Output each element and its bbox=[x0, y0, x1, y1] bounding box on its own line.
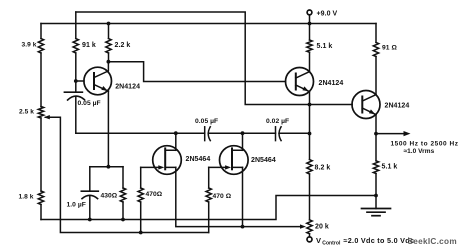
wire Q1 base bbox=[76, 80, 84, 82]
wire 430 top lead bbox=[122, 167, 124, 188]
resistor 91k bbox=[73, 39, 78, 54]
wire 470a bottom lead bbox=[140, 202, 142, 233]
svg-text:91 k: 91 k bbox=[82, 42, 96, 49]
wire 5.1k bottom top lead bbox=[375, 134, 377, 161]
wire 2.5k to 1.8k bbox=[40, 118, 42, 191]
junction 470a bottom bbox=[139, 231, 143, 235]
svg-text:1.0 µF: 1.0 µF bbox=[67, 202, 86, 209]
transistor Q3 2N4124 bbox=[352, 91, 380, 119]
arrowhead 20k wiper bbox=[300, 224, 306, 228]
label Q3 2N4124 bbox=[385, 103, 410, 110]
terminal Vcontrol bbox=[307, 237, 312, 242]
capacitor 1.0uF bbox=[81, 191, 98, 198]
wire JFET2 drain bbox=[242, 133, 244, 150]
wire feedback rail (91k top to Q3 base line) bbox=[76, 12, 352, 105]
label 0.05 uF series bbox=[195, 118, 218, 125]
svg-text:470 Ω: 470 Ω bbox=[213, 193, 232, 200]
svg-text:0.05 µF: 0.05 µF bbox=[78, 100, 101, 107]
resistor 1.8k bbox=[38, 191, 43, 204]
wire C1 top lead bbox=[75, 81, 77, 92]
resistor 430 bbox=[120, 188, 125, 202]
wire JFET2 source bbox=[242, 167, 244, 226]
label Q1 2N4124 bbox=[115, 84, 140, 91]
resistor 470a bbox=[138, 188, 143, 202]
label Q5 2N5464 bbox=[251, 157, 276, 164]
label +9.0 V bbox=[317, 11, 338, 18]
junction JFET2 source on wiper line bbox=[241, 225, 245, 229]
label 5.1 k top bbox=[317, 43, 333, 50]
resistor 8.2k bbox=[307, 160, 312, 175]
capacitor C1 0.05uF bbox=[64, 92, 84, 100]
svg-text:SeekIC.com: SeekIC.com bbox=[408, 237, 457, 246]
label 20 k bbox=[315, 224, 329, 231]
junction ground node bbox=[374, 194, 378, 198]
resistor 91ohm bbox=[373, 42, 378, 56]
svg-text:1.8 k: 1.8 k bbox=[19, 194, 34, 201]
wire 2.2k top lead bbox=[108, 24, 110, 39]
wire emitter node horizontal bbox=[90, 166, 123, 168]
label 3.9 k bbox=[22, 42, 37, 49]
label 2.5 k bbox=[19, 109, 34, 116]
label output level bbox=[404, 148, 435, 155]
svg-text:3.9 k: 3.9 k bbox=[22, 42, 37, 49]
svg-text:0.02 µF: 0.02 µF bbox=[266, 118, 289, 125]
wire ground lead bbox=[375, 196, 377, 209]
label output freq bbox=[391, 140, 459, 147]
wire Q1 collector to Q2 base bbox=[108, 62, 285, 82]
label 1.0 uF bbox=[67, 202, 86, 209]
svg-text:V: V bbox=[316, 236, 321, 245]
wire +9V supply rail bbox=[41, 23, 376, 25]
wire 91k to Q1 base node bbox=[75, 53, 77, 81]
svg-text:470Ω: 470Ω bbox=[146, 191, 163, 198]
wire output bbox=[376, 133, 405, 135]
wire 3.9k to 2.5k bbox=[40, 53, 42, 107]
resistor 3.9k bbox=[38, 39, 43, 54]
JFET Q4 2N5464 bbox=[153, 146, 182, 175]
wire JFET1 gate bbox=[141, 166, 161, 168]
junction Q1 collector node bbox=[107, 60, 111, 64]
wire 470a top lead bbox=[140, 167, 142, 188]
wire Q2 collector bbox=[309, 52, 311, 71]
arrowhead 2.5k wiper bbox=[44, 115, 50, 119]
wire 470b bottom lead bbox=[208, 202, 210, 233]
svg-text:Control: Control bbox=[322, 241, 341, 247]
label 470a ohm bbox=[146, 191, 163, 198]
wire Q3 emitter bbox=[375, 114, 377, 133]
label 2.2 k bbox=[115, 42, 131, 49]
label 5.1 k bottom bbox=[382, 164, 398, 171]
wire Q1 emitter bbox=[107, 91, 109, 167]
wire JFET2 gate bbox=[209, 166, 228, 168]
wire Q3 collector bbox=[375, 57, 377, 95]
wire 2.2k to Q1 collector bbox=[108, 53, 110, 62]
junction 2.2k top bbox=[107, 22, 111, 26]
wire 20k bottom lead bbox=[309, 234, 311, 237]
resistor 5.1k top bbox=[307, 40, 312, 52]
svg-text:430Ω: 430Ω bbox=[101, 193, 118, 200]
wire 430 bottom lead bbox=[122, 202, 124, 220]
wire common line1 to 5.1k bottom node bbox=[41, 196, 376, 220]
svg-text:2N5464: 2N5464 bbox=[251, 157, 276, 164]
svg-text:≈1.0 Vrms: ≈1.0 Vrms bbox=[404, 148, 435, 155]
wire 5.1k top lead bbox=[309, 24, 311, 41]
svg-text:1500 Hz to 2500 Hz: 1500 Hz to 2500 Hz bbox=[391, 140, 459, 147]
arrowhead JFET1 gate bbox=[158, 165, 164, 169]
potentiometer 20k bbox=[307, 220, 312, 234]
capacitor 0.02uF series bbox=[276, 127, 282, 141]
wire 2.5k wiper arm bbox=[46, 117, 209, 232]
label 470b ohm bbox=[213, 193, 232, 200]
junction JFET1 drain bbox=[174, 131, 178, 135]
wire 8.2k top lead bbox=[309, 134, 311, 160]
capacitor 0.05uF series bbox=[205, 127, 211, 141]
label Q4 2N5464 bbox=[186, 156, 211, 163]
label 1.8 k bbox=[19, 194, 34, 201]
svg-text:2N4124: 2N4124 bbox=[115, 84, 140, 91]
potentiometer 2.5k bbox=[38, 107, 43, 119]
wire JFET1 drain bbox=[175, 133, 177, 150]
label 0.05 uF C1 bbox=[78, 100, 101, 107]
svg-text:5.1 k: 5.1 k bbox=[317, 43, 333, 50]
wire 1.0uF bottom lead bbox=[89, 196, 91, 219]
wire 470b top lead bbox=[208, 167, 210, 188]
resistor 470b bbox=[206, 188, 211, 202]
wire 5.1k bottom to node bbox=[375, 174, 377, 196]
wire JFET1 source to 20k wiper line bbox=[176, 167, 302, 226]
label 91 ohm bbox=[382, 45, 397, 52]
wire 91k top lead bbox=[75, 12, 77, 39]
svg-text:8.2 k: 8.2 k bbox=[315, 165, 331, 172]
wire phase-shift ladder bbox=[76, 132, 310, 134]
wire 1.0uF top lead bbox=[89, 167, 91, 192]
junction 1.0uF bottom bbox=[88, 218, 92, 222]
svg-text:2.2 k: 2.2 k bbox=[115, 42, 131, 49]
junction Q1 emitter node bbox=[107, 165, 111, 169]
transistor Q2 2N4124 bbox=[286, 68, 314, 96]
wire 3.9k top lead bbox=[40, 24, 42, 39]
svg-text:2N4124: 2N4124 bbox=[319, 80, 344, 87]
svg-text:≈2.0 Vdc to 5.0 Vdc: ≈2.0 Vdc to 5.0 Vdc bbox=[344, 236, 415, 245]
svg-text:2N4124: 2N4124 bbox=[385, 103, 410, 110]
wire 8.2k to 20k bbox=[309, 174, 311, 220]
junction Q1 base node bbox=[74, 79, 78, 83]
junction 430 bottom bbox=[121, 218, 125, 222]
svg-text:91 Ω: 91 Ω bbox=[382, 45, 397, 52]
svg-text:2.5 k: 2.5 k bbox=[19, 109, 34, 116]
wire 91ohm top lead bbox=[375, 24, 377, 43]
svg-text:0.05 µF: 0.05 µF bbox=[195, 118, 218, 125]
watermark SeekIC.com bbox=[408, 237, 457, 246]
label 91 k bbox=[82, 42, 96, 49]
svg-text:20 k: 20 k bbox=[315, 224, 329, 231]
junction Q2 emitter to Q3 base bbox=[308, 103, 312, 107]
label 0.02 uF bbox=[266, 118, 289, 125]
junction JFET2 drain bbox=[241, 131, 245, 135]
wire Q2 emitter bbox=[309, 91, 311, 133]
terminal +9.0 V bbox=[307, 10, 312, 24]
label 8.2 k bbox=[315, 165, 331, 172]
resistor 2.2k bbox=[106, 39, 111, 54]
label 430 ohm bbox=[101, 193, 118, 200]
arrowhead output bbox=[404, 131, 411, 136]
svg-text:5.1 k: 5.1 k bbox=[382, 164, 398, 171]
wire 1.8k bottom to line1 bbox=[40, 205, 42, 220]
label Q2 2N4124 bbox=[319, 80, 344, 87]
junction +9V rail bbox=[308, 22, 312, 26]
svg-text:+9.0 V: +9.0 V bbox=[317, 11, 338, 18]
transistor Q1 2N4124 bbox=[84, 62, 112, 95]
junction ladder right node bbox=[308, 132, 312, 136]
wire C1 bottom to ladder bbox=[75, 97, 77, 133]
junction output node bbox=[374, 132, 378, 136]
JFET Q5 2N5464 bbox=[220, 146, 249, 175]
arrowhead JFET2 gate bbox=[225, 165, 231, 169]
label Vcontrol bbox=[316, 236, 414, 247]
ground bbox=[362, 209, 391, 216]
resistor 5.1k bottom bbox=[373, 161, 378, 174]
svg-text:2N5464: 2N5464 bbox=[186, 156, 211, 163]
